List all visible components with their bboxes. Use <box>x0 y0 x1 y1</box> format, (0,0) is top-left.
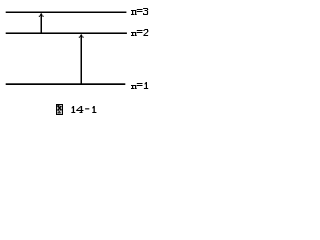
caption text 14-1 <box>71 106 96 113</box>
transition arrow from n=2 up to n=3 <box>39 13 44 33</box>
label n=2 <box>131 29 148 36</box>
energy level line n=1 <box>6 83 126 85</box>
transition arrow from n=1 up to n=2 <box>79 34 84 84</box>
label n=3 <box>131 8 148 15</box>
energy level line n=3 <box>6 12 127 14</box>
caption chinese character tu (figure) <box>56 104 63 115</box>
label n=1 <box>131 82 148 89</box>
energy level line n=2 <box>6 32 127 34</box>
